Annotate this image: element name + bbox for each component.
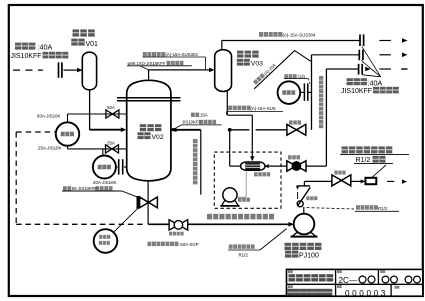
- flange pair F3 (takeoff 2): [359, 50, 363, 61]
- wire: branch down x200.8: [200, 130, 202, 195]
- valve: drain valve with flanged end: [138, 196, 158, 209]
- svg-text:JIS10KFF: JIS10KFF: [182, 120, 201, 125]
- wire: stub to flowmeter: [102, 149, 104, 156]
- wire: V03 top riser + line1 to takeoff: [222, 41, 360, 50]
- wire: V01 bottom drop pipe: [89, 90, 91, 130]
- svg-text:(A)-15A-SUS304: (A)-15A-SUS304: [283, 33, 317, 38]
- label: 20A-JIS10K: [93, 180, 117, 185]
- node: dash+arrow takeoff 2: [379, 53, 407, 58]
- node: dash+arrow takeoff 1: [379, 38, 407, 43]
- svg-text:R1/2: R1/2: [378, 206, 388, 211]
- svg-text:V01: V01: [86, 41, 99, 48]
- wire: leader transmitter to drain valve: [113, 208, 138, 233]
- svg-text:55-JIS10KRF: 55-JIS10KRF: [72, 186, 98, 191]
- valve: check valve 逆止弁: [296, 186, 310, 207]
- label: OO OO (name): [382, 276, 420, 283]
- wire: HX to cooling pump (thin): [237, 171, 246, 198]
- label: ポンプ: [238, 198, 250, 202]
- svg-text:15A: 15A: [200, 113, 208, 118]
- label: 50A-JIS10K: [37, 114, 61, 119]
- tank V02 body: [127, 80, 171, 181]
- wire: line 25A to V02: [68, 148, 127, 150]
- wire: V02 drain drop: [147, 181, 149, 225]
- svg-text:PJ100: PJ100: [299, 253, 319, 260]
- svg-text::40A: :40A: [368, 78, 383, 87]
- heat exchanger HX: [241, 162, 266, 170]
- label: header 図番 cell: [337, 285, 342, 288]
- wire: V03 bottom pipe to HX top: [227, 91, 254, 161]
- valve: ball valve (open circle): [169, 220, 188, 236]
- label: 取合部40A (top-left) row1: [15, 43, 52, 52]
- wire: branch down to HX inlet: [230, 130, 241, 166]
- svg-text:000003: 000003: [345, 289, 388, 298]
- fitting: threaded nipple rect: [365, 178, 376, 184]
- svg-text:R1/2: R1/2: [356, 157, 371, 164]
- label: header 尺度 cell: [395, 286, 400, 289]
- flange pair F1 (V01 inlet, 40A JIS10K): [59, 62, 62, 77]
- label: ねじ込みR1/2 (pump takeoff) underlined + leader: [307, 205, 400, 211]
- svg-text:-50A-SGP: -50A-SGP: [179, 242, 199, 247]
- node: junction dot: [228, 128, 232, 132]
- wire: PRV outlet segment to junction: [230, 129, 287, 131]
- label: 機番V02: [138, 132, 164, 141]
- wire: V02 dome riser to V03: [149, 68, 215, 81]
- svg-text::40A: :40A: [38, 43, 53, 52]
- wire: V02 right nozzle with arrow: [171, 128, 201, 133]
- wire: check valve up + discharge header: [304, 181, 332, 186]
- label: 熱交換器: [254, 172, 270, 176]
- label: プロセスガス(A)-15A-SUS (#3) underlined: [227, 106, 283, 115]
- instrument: level gauge circle 液面計: [56, 122, 79, 145]
- label: 機番PJ100: [285, 251, 319, 260]
- svg-text:25A-JIS10K: 25A-JIS10K: [38, 145, 62, 150]
- label: フレキ(13) underlined + dashed hook: [284, 74, 310, 84]
- wire: riser x326.4 up to line3: [325, 69, 327, 166]
- label: JIS10KFFフランジ (top-left) row2: [11, 52, 69, 60]
- valve 50A (globe): [106, 105, 119, 118]
- wire: riser x311.5 (line2 down to PRV): [311, 55, 313, 130]
- tank V01: [82, 52, 96, 90]
- node: battery-limit dashed line top-left: [13, 69, 43, 71]
- label: 連絡ねじ込み R1/2 underlined + leader: [228, 229, 287, 258]
- svg-text:(A)-15A-SUS304: (A)-15A-SUS304: [166, 52, 199, 57]
- svg-text:JIS10KFF: JIS10KFF: [11, 53, 42, 60]
- wire: valve to nipple + arrow: [351, 179, 365, 183]
- svg-text:V02: V02: [152, 134, 164, 141]
- svg-text:2C—: 2C—: [339, 276, 358, 285]
- label: 逆止弁: [306, 196, 317, 200]
- label: header 学校 cell: [288, 270, 293, 273]
- label: 冷却ユニット(A線内): [207, 214, 274, 220]
- label: タンク (V02): [140, 124, 162, 131]
- label: 取合部40A (top-right): [347, 78, 383, 87]
- label: 25A-JIS10K: [38, 145, 62, 150]
- wire: line2 to takeoff: [312, 54, 359, 56]
- flange pair F4 (takeoff 3): [359, 64, 363, 75]
- wire: pump discharge riser: [303, 207, 305, 214]
- wire: main feed into V02 left nozzle: [90, 127, 127, 132]
- wire: cooling line diagonal peak: [254, 51, 311, 89]
- title block grid: [287, 269, 423, 296]
- label: 呼び55-JIS10KRFフランジ underlined: [62, 186, 146, 200]
- svg-text:50A: 50A: [107, 105, 115, 110]
- svg-text:(A)-15A-SUS: (A)-15A-SUS: [251, 106, 276, 111]
- wire: gauge bottom to line 25A: [67, 146, 69, 149]
- valve 25A (globe): [106, 140, 119, 153]
- node: dashed inst-line left of gauge: [16, 131, 56, 133]
- valve: discharge globe valve: [332, 171, 351, 186]
- label: 000003: [345, 289, 388, 298]
- label: プロセスガス(A)-15A-SUS304 (#1) underlined: [143, 52, 206, 69]
- wire: HX right line + arrow + to 3way valve: [264, 164, 287, 168]
- instrument: level transmitter circle: [94, 229, 118, 253]
- svg-text:φ89.1XO-JIS10KFF: φ89.1XO-JIS10KFF: [128, 61, 166, 66]
- node: dashed process line bottom-left: [16, 223, 143, 225]
- label: 取合部ねじ込み R1/2メス underlined: [340, 146, 409, 177]
- svg-text:50A-JIS10K: 50A-JIS10K: [37, 114, 61, 119]
- valve: three-way ball valve 三方弁 (filled): [287, 155, 306, 171]
- label: プロセスガス(A)-15A-SUS304 (top): [259, 32, 316, 38]
- label: プラント配管図: [288, 289, 333, 296]
- svg-text:JIS10KFF: JIS10KFF: [341, 88, 372, 95]
- label: 渦巻ポンプ: [285, 243, 322, 250]
- svg-text:25A: 25A: [107, 140, 115, 145]
- label: プロセス排水 line label: [148, 242, 199, 248]
- tank V03: [215, 50, 232, 92]
- label: 機番V01: [71, 39, 98, 48]
- label: header 氏名 cell: [380, 270, 385, 273]
- pump: cooling pump circle: [220, 188, 239, 206]
- svg-text:R1/2: R1/2: [239, 252, 249, 257]
- svg-text:20A-JIS10K: 20A-JIS10K: [93, 180, 117, 185]
- label: 機番V03: [237, 59, 263, 68]
- node: cooling unit dashed box: [214, 152, 281, 208]
- instrument: blower circle with フレキ(13) label: [278, 81, 301, 104]
- wire+flange: blower discharge flange: [300, 83, 311, 101]
- wire+flange: flowmeter to tank nozzle: [116, 159, 127, 174]
- wire: drain to ball valve: [148, 223, 169, 225]
- wire: flange F1 to tank V01 with arrow: [64, 68, 83, 73]
- wire: ball valve to pump suction: [188, 222, 294, 227]
- valve PRV 減圧弁: [287, 120, 306, 135]
- label: vertical text column x321: [319, 76, 323, 128]
- node: leader lines from flanges to label: [361, 46, 381, 76]
- flange pair F2 (takeoff 1): [360, 34, 364, 46]
- label: header 図名 cell: [288, 285, 293, 288]
- wire: line 50A (gauge top to V02): [68, 114, 127, 122]
- tank V02 top flange lines: [117, 98, 181, 101]
- label: 2C-OO: [339, 276, 376, 285]
- label: rotated cooling line text: [253, 62, 277, 85]
- label: 高松工業高専: [289, 274, 334, 281]
- label: JIS10KFFフランジ (top-right): [341, 87, 399, 95]
- label: タンク (V03): [237, 51, 259, 58]
- svg-text:V03: V03: [251, 61, 263, 68]
- node: arrow after flange + dashes takeoff 3: [365, 67, 407, 72]
- wire: 3way valve to riser x326.4: [306, 165, 326, 167]
- pump PJ100 circle+base: [291, 214, 318, 237]
- label: φ89.1XO-JIS10KFFフランジ (#2) underlined: [127, 61, 192, 70]
- label: header 番 cell: [337, 270, 342, 273]
- label: vertical text column x195: [193, 139, 198, 184]
- wire: line3 to takeoff: [326, 68, 358, 70]
- label: タンク (V01): [73, 29, 95, 36]
- instrument: flow meter circle 流量計: [93, 156, 116, 179]
- label: 15A JIS10KFFフランジ (V02 right nozzle) underlined: [172, 113, 222, 132]
- node: dash + arrow takeoff R1/2: [387, 180, 407, 184]
- node: dashed line down left margin: [15, 132, 17, 224]
